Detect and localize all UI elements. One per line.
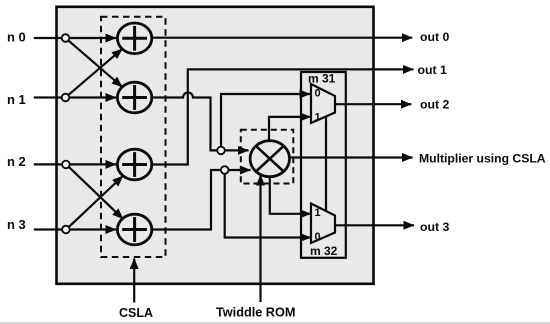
svg-text:n 0: n 0 xyxy=(7,29,26,44)
wire n0 input xyxy=(34,37,62,39)
wire n3 to adder A3 diagonal xyxy=(69,176,123,227)
svg-text:CSLA: CSLA xyxy=(119,306,153,320)
svg-text:0: 0 xyxy=(315,88,321,100)
node n2 xyxy=(62,161,70,169)
label out 3 xyxy=(420,220,450,234)
bottom page rule xyxy=(0,322,550,324)
wire n3 input xyxy=(34,228,62,230)
wire Twiddle ROM to multiplier xyxy=(259,175,261,302)
label m31 pin 1 xyxy=(315,112,321,124)
label Multiplier using CSLA xyxy=(419,151,546,165)
wire mux m31 to mux m32 xyxy=(325,117,327,211)
wire adder A1 output to out 0 xyxy=(152,37,413,39)
wire node J1 branch to mux m31 input 0 xyxy=(221,94,310,150)
label m 31 xyxy=(308,72,336,86)
label out 2 xyxy=(420,98,450,112)
label m32 pin 1 xyxy=(315,207,321,219)
svg-text:m 32: m 32 xyxy=(310,244,338,258)
wire n2 input xyxy=(34,163,62,165)
svg-text:out 2: out 2 xyxy=(420,98,450,112)
label m31 pin 0 xyxy=(315,88,321,100)
multiplier dashed box xyxy=(241,130,293,184)
label CSLA xyxy=(119,306,153,320)
svg-text:out 3: out 3 xyxy=(420,220,450,234)
wire n0 to adder A1 xyxy=(69,37,116,39)
svg-text:Twiddle ROM: Twiddle ROM xyxy=(216,306,295,320)
adder A3 xyxy=(117,149,151,180)
svg-text:n 3: n 3 xyxy=(7,217,26,232)
wire adder A3 output to out 1 xyxy=(152,69,414,164)
svg-text:n 2: n 2 xyxy=(7,154,26,169)
CSLA dashed box xyxy=(101,17,166,257)
multiplier U1 xyxy=(250,141,289,177)
label m 32 xyxy=(310,244,338,258)
adder A2 xyxy=(117,82,151,113)
label out 1 xyxy=(418,63,448,77)
mux m31 xyxy=(311,84,335,123)
wire multiplier output down to mux m32 input 1 xyxy=(270,177,311,214)
wire n2 to adder A4 diagonal xyxy=(69,167,123,219)
wire node J2 branch to mux m32 input 0 xyxy=(225,170,311,238)
wire n1 to adder A2 xyxy=(69,96,116,98)
wire adder A2 output with hop xyxy=(152,93,249,151)
node n0 xyxy=(62,34,70,42)
adder A4 xyxy=(117,214,151,245)
label n 1 xyxy=(7,92,26,107)
svg-text:1: 1 xyxy=(315,112,321,124)
mux block box xyxy=(301,72,346,258)
wire adder A4 output to multiplier xyxy=(152,170,251,230)
node J1 xyxy=(217,147,225,155)
label out 0 xyxy=(420,30,450,44)
svg-text:0: 0 xyxy=(315,231,321,243)
outer block background xyxy=(57,7,374,284)
wire n1 to adder A1 diagonal xyxy=(68,49,122,95)
svg-text:out 1: out 1 xyxy=(418,63,448,77)
svg-text:out 0: out 0 xyxy=(420,30,450,44)
label Twiddle ROM xyxy=(216,306,295,320)
svg-text:n 1: n 1 xyxy=(7,92,26,107)
wire multiplier output right to label xyxy=(290,156,413,158)
svg-text:1: 1 xyxy=(315,207,321,219)
label n 3 xyxy=(7,217,26,232)
wire mux m31 output to out 2 xyxy=(335,103,411,105)
adder A1 xyxy=(117,23,151,54)
wire mux m32 output to out 3 xyxy=(335,224,414,226)
node n1 xyxy=(62,94,70,102)
node J2 xyxy=(221,166,229,174)
svg-text:m 31: m 31 xyxy=(308,72,336,86)
wire n0 to adder A2 diagonal xyxy=(68,40,122,87)
wire n1 input xyxy=(34,96,62,98)
wire CSLA label arrow xyxy=(133,259,135,303)
wire n2 to adder A3 xyxy=(70,163,116,165)
wire multiplier output up to mux m31 input 1 xyxy=(269,117,311,141)
wire n3 to adder A4 xyxy=(70,228,116,230)
label n 2 xyxy=(7,154,26,169)
mux m32 xyxy=(311,204,335,244)
svg-text:Multiplier using CSLA: Multiplier using CSLA xyxy=(419,151,546,165)
label m32 pin 0 xyxy=(315,231,321,243)
node n3 xyxy=(62,226,70,234)
label n 0 xyxy=(7,29,26,44)
